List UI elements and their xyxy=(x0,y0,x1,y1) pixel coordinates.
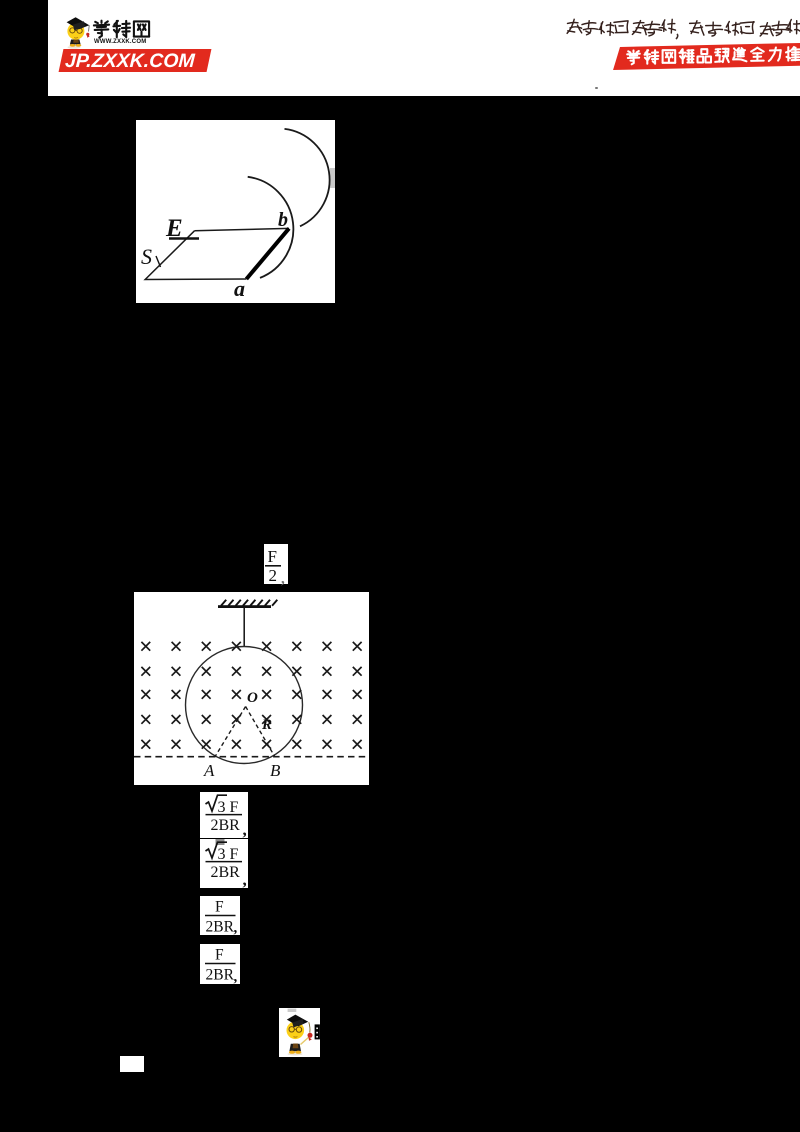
svg-text:,: , xyxy=(243,870,247,888)
svg-text:R: R xyxy=(261,717,272,733)
svg-text:F: F xyxy=(215,947,224,964)
svg-text:2BR: 2BR xyxy=(211,817,241,834)
svg-text:,: , xyxy=(234,920,238,935)
svg-text:O: O xyxy=(247,690,258,706)
svg-text:2BR: 2BR xyxy=(206,919,235,936)
svg-text:A: A xyxy=(203,761,215,780)
svg-text:2: 2 xyxy=(269,566,278,584)
svg-text:2BR: 2BR xyxy=(206,967,235,984)
svg-text:a: a xyxy=(234,276,245,301)
svg-text:S: S xyxy=(141,244,152,269)
svg-text:F: F xyxy=(215,899,224,916)
svg-text:,: , xyxy=(243,820,247,838)
svg-text:3 F: 3 F xyxy=(218,799,239,816)
svg-text:b: b xyxy=(278,209,288,231)
svg-text:2BR: 2BR xyxy=(211,864,241,881)
svg-text:F: F xyxy=(268,547,277,566)
svg-text:B: B xyxy=(270,761,281,780)
svg-text:3 F: 3 F xyxy=(218,846,239,863)
svg-text:,: , xyxy=(234,969,238,984)
